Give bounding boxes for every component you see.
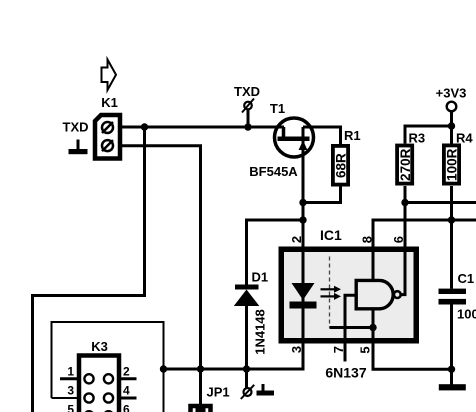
- junction C1 / ground: [448, 366, 455, 373]
- wire gate bottom to pin5: [372, 309, 375, 370]
- svg-text:T1: T1: [270, 101, 285, 116]
- wire stub to open terminal bottom: [245, 369, 248, 388]
- wire K3 pin3 stub: [52, 397, 80, 399]
- wire +3V3 to R3/R4 tops: [405, 126, 452, 144]
- svg-text:R4: R4: [456, 131, 473, 146]
- junction R3 / pin6: [401, 199, 408, 206]
- ground symbol near K1: [69, 140, 88, 155]
- svg-text:5: 5: [358, 346, 373, 353]
- svg-text:5: 5: [67, 403, 74, 412]
- svg-text:R1: R1: [344, 128, 361, 143]
- wire TXD net: K1 pin1 to T1 gate: [120, 126, 284, 129]
- svg-text:JP1: JP1: [207, 385, 230, 400]
- wire K3 pin1 stub: [60, 377, 79, 380]
- jumper JP1: [191, 369, 211, 412]
- wire K3 pin4 stub: [119, 397, 137, 400]
- svg-text:TXD: TXD: [63, 120, 89, 135]
- wire pin8 net to right edge: [373, 220, 476, 247]
- resistor R3: [397, 146, 413, 184]
- dashed separator inside IC1: [329, 257, 331, 328]
- svg-text:8: 8: [359, 236, 374, 243]
- wire T1 drain/source/pin2 vertical: [302, 127, 305, 247]
- supply +3V3 terminal: [447, 102, 457, 112]
- connector K3 outline wire: [52, 322, 164, 412]
- wire D1 bottom to node row: [245, 306, 248, 369]
- svg-text:1N4148: 1N4148: [253, 309, 268, 355]
- svg-text:270R: 270R: [398, 148, 413, 181]
- wire pin8 to gate top: [372, 220, 375, 280]
- connector K1: [95, 115, 120, 159]
- wire C1 bottom to ground: [450, 305, 453, 385]
- wire TXD stub vertical: [247, 110, 250, 128]
- wire TXD branch down-left: [33, 127, 145, 412]
- wire +3V3 terminal vertical: [450, 111, 453, 143]
- svg-text:+3V3: +3V3: [436, 86, 467, 101]
- NAND gate U inside IC1: [356, 280, 393, 308]
- svg-text:D1: D1: [252, 270, 269, 285]
- svg-text:6N137: 6N137: [325, 365, 366, 381]
- wire node row y369 to IC1 pin3: [164, 344, 304, 370]
- svg-text:IC1: IC1: [320, 227, 342, 243]
- svg-text:4: 4: [123, 384, 130, 398]
- wire R4 bottom to C1 top: [450, 186, 453, 289]
- wire IC1 pin5 to C1 ground node: [373, 344, 452, 370]
- wire R3 bottom to IC1 pin6: [404, 186, 407, 247]
- transistor T1 (JFET): [275, 118, 314, 157]
- wire T1 drain to R1 top: [303, 127, 341, 144]
- svg-text:TXD: TXD: [234, 84, 260, 99]
- junction R4 / pin8 / C1: [448, 216, 455, 223]
- svg-text:100R: 100R: [444, 148, 459, 181]
- svg-text:K3: K3: [91, 339, 108, 354]
- wire NAND output to pin6: [401, 203, 405, 295]
- svg-text:1: 1: [67, 365, 74, 379]
- junction TXD stub: [244, 123, 251, 130]
- wire detector line inside IC1: [330, 326, 374, 329]
- svg-text:68R: 68R: [333, 153, 348, 178]
- ground symbol bottom middle: [257, 384, 275, 396]
- svg-text:BF545A: BF545A: [249, 164, 298, 179]
- junction JP1 branch: [197, 365, 204, 372]
- wire K1 pin2 to JP1: [120, 146, 201, 369]
- junction T1 source / R1: [299, 199, 306, 206]
- ground symbol below C1: [439, 384, 466, 390]
- wire gate input / pin7: [345, 295, 356, 361]
- junction D1 anode: [243, 365, 250, 372]
- svg-text:100n: 100n: [457, 307, 476, 322]
- open terminal TXD top: [242, 99, 254, 113]
- svg-text:3: 3: [289, 346, 304, 353]
- svg-text:6: 6: [123, 403, 130, 412]
- capacitor C1: [439, 289, 467, 305]
- wire R3 node to right edge: [405, 201, 476, 204]
- junction +3V3 rail: [448, 122, 455, 129]
- svg-text:2: 2: [289, 236, 304, 243]
- light arrows inside IC1: [321, 286, 342, 300]
- LED inside IC1: [290, 283, 317, 309]
- resistor R4: [444, 145, 460, 183]
- svg-text:K1: K1: [101, 95, 118, 110]
- open terminal bottom: [241, 385, 254, 399]
- svg-text:3: 3: [67, 384, 74, 398]
- wire K3 pin2 stub: [119, 377, 137, 380]
- optocoupler IC1: [281, 249, 416, 341]
- svg-text:C1: C1: [458, 271, 475, 286]
- svg-text:6: 6: [391, 236, 406, 243]
- node inside IC1: [369, 324, 376, 331]
- svg-text:R3: R3: [409, 131, 426, 146]
- arrow symbol top-left: [102, 60, 117, 91]
- wire D1 top to pin2 node: [247, 220, 304, 285]
- wire LED anode/cathode through IC1: [302, 247, 305, 370]
- svg-text:2: 2: [123, 365, 130, 379]
- connector K3 header: [79, 356, 119, 412]
- junction D1 cathode / pin2: [299, 216, 306, 223]
- diode D1: [234, 285, 259, 307]
- resistor R1: [333, 146, 348, 185]
- svg-text:7: 7: [331, 346, 346, 353]
- junction K3 branch: [160, 365, 167, 372]
- wire R1 bottom to T1 source node: [303, 186, 341, 203]
- NAND output bubble: [394, 291, 401, 298]
- junction TXD branch: [141, 123, 148, 130]
